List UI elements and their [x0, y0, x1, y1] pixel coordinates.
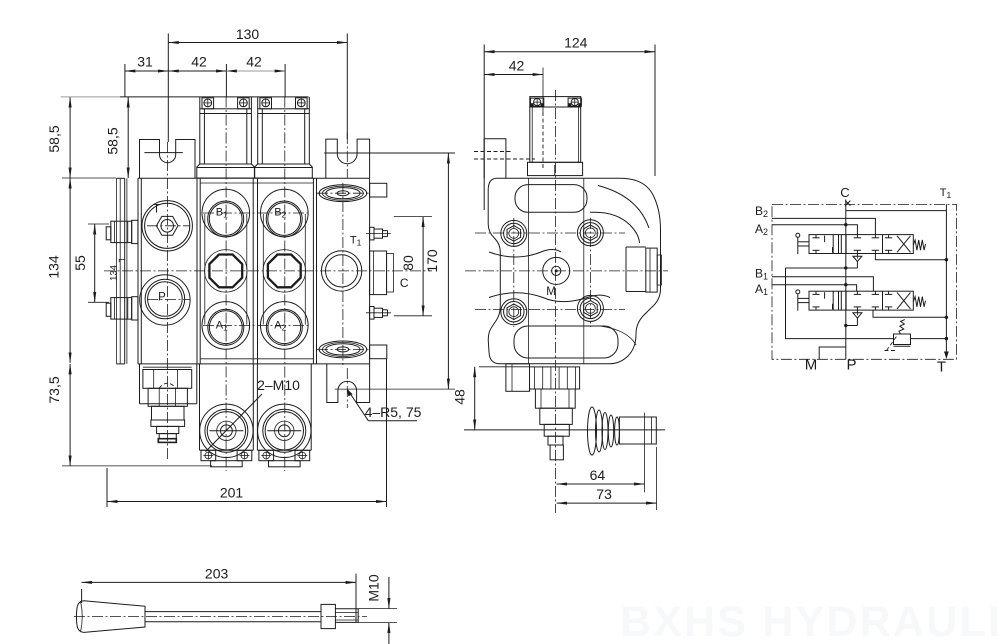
wire V1 tank return [873, 310, 946, 317]
side center port M [543, 257, 570, 284]
centerline foot axis [346, 368, 348, 408]
body top line [120, 96, 309, 98]
side body outline [488, 178, 660, 363]
left bolt lower [111, 298, 132, 320]
svg-text:124: 124 [564, 35, 588, 51]
port C circle [321, 251, 361, 291]
wire M stub [819, 347, 846, 359]
X mark at C [845, 201, 850, 206]
svg-text:130: 130 [236, 26, 260, 42]
side left protrusion clevis [484, 139, 506, 179]
centerline T row [147, 225, 190, 227]
svg-text:C: C [840, 185, 849, 200]
side decorative web lines [489, 250, 561, 258]
centerline inlet axis [167, 142, 169, 459]
svg-text:58,5: 58,5 [105, 127, 121, 154]
svg-text:2–M10: 2–M10 [257, 377, 300, 393]
check valve under V2 [856, 254, 858, 257]
centerline P row [147, 299, 190, 301]
svg-text:BXHS HYDRAULIC: BXHS HYDRAULIC [620, 598, 1000, 644]
side top lobe [515, 185, 587, 213]
right side plate [370, 251, 387, 295]
pin centerline / 170 extension [324, 152, 455, 154]
lever rod [145, 611, 321, 613]
side bottom lobe [514, 326, 618, 358]
side bottom stem stack [530, 367, 580, 389]
left side plate [116, 178, 118, 364]
section divider 3 [312, 178, 314, 364]
schematic border [772, 204, 957, 359]
side horizontal centerline [464, 429, 665, 431]
svg-text:31: 31 [137, 54, 153, 70]
section boss verticals 1 [204, 214, 206, 325]
port B1 [202, 189, 250, 237]
svg-text:58,5: 58,5 [46, 125, 62, 152]
port T [142, 201, 192, 251]
svg-text:134: 134 [109, 265, 120, 281]
svg-text:M: M [805, 357, 818, 374]
side bolts 4x [501, 220, 527, 246]
side left foot below body [506, 364, 530, 392]
port B2 [261, 189, 309, 237]
port A2 [261, 302, 309, 350]
line T1 vertical [945, 204, 947, 352]
svg-text:73,5: 73,5 [46, 376, 62, 403]
line C vertical [845, 200, 847, 360]
valve V2 upper directional valve [796, 233, 926, 254]
wire A1 [772, 285, 857, 292]
side actuator cap [530, 97, 581, 107]
centerline section1 axis [225, 97, 227, 472]
svg-text:42: 42 [246, 54, 262, 70]
wire check outlet to P [846, 325, 858, 327]
side right port plate [625, 247, 627, 292]
svg-text:80: 80 [400, 255, 416, 271]
wire B2 [772, 218, 875, 234]
section divider 1 [196, 178, 198, 364]
centerline ovals [317, 192, 369, 194]
centerline section2 axis [284, 97, 286, 472]
side end cylinder [619, 417, 656, 444]
svg-text:73: 73 [596, 486, 612, 502]
wire C to T1 top [846, 210, 947, 212]
centerline outlet axis [342, 183, 344, 365]
svg-text:T: T [937, 359, 946, 376]
svg-text:201: 201 [220, 485, 244, 501]
lever centerline [74, 616, 367, 618]
T1 bottom arrow [944, 352, 949, 360]
side vertical axis [555, 90, 557, 513]
svg-text:M10: M10 [366, 574, 382, 601]
svg-text:64: 64 [590, 467, 606, 483]
side section face verticals [527, 178, 529, 363]
bottom cap at 226.4 [199, 364, 201, 450]
center spool port section 1 [209, 255, 242, 288]
svg-text:4–R5, 75: 4–R5, 75 [365, 404, 422, 420]
bottom cap at 284.3 [256, 364, 258, 450]
wire relief to T1 [911, 338, 947, 340]
section boss verticals 2 [262, 214, 264, 325]
valve V1 lower directional valve [796, 290, 926, 311]
outlet oval slot top [319, 185, 367, 202]
wire P gallery to relief [786, 268, 894, 339]
right step bottom [370, 345, 387, 359]
centerline A row [203, 324, 308, 326]
svg-text:203: 203 [205, 566, 229, 582]
svg-text:T: T [153, 204, 160, 216]
foot bracket with notch 4-R5,75 [327, 364, 370, 403]
svg-text:P: P [158, 292, 166, 304]
right bolt bottom [370, 307, 374, 320]
main body outline [138, 177, 370, 179]
port A1 [202, 302, 250, 350]
right step top [370, 183, 387, 197]
centerline B row [203, 212, 308, 214]
wire A2 [772, 225, 857, 235]
section top face line [200, 182, 313, 184]
svg-text:P: P [846, 357, 856, 374]
svg-text:55: 55 [72, 255, 88, 271]
section divider 2 [252, 178, 254, 364]
wire B1 [772, 277, 873, 292]
left bolt upper [111, 221, 132, 242]
svg-text:42: 42 [191, 54, 207, 70]
svg-text:48: 48 [452, 389, 468, 405]
clevis bracket left [140, 140, 196, 179]
lever thread end [335, 608, 358, 610]
wire V2 tank return [875, 254, 946, 260]
svg-text:42: 42 [509, 58, 525, 74]
clevis bracket right [326, 139, 370, 178]
check valve under V1 [856, 310, 858, 313]
side top right crescent [598, 186, 649, 229]
actuator cap section1 [200, 109, 252, 164]
centerline clevis right axis [346, 133, 348, 178]
relief drain dashed [887, 337, 897, 351]
lever handle grip [76, 601, 145, 633]
right bolt top [370, 227, 374, 240]
relief valve adjuster stack [139, 364, 141, 404]
port P [140, 275, 190, 325]
svg-text:M: M [546, 286, 556, 298]
side bolt centerlines [475, 232, 625, 234]
svg-text:134: 134 [46, 255, 62, 279]
center spool port section 2 [268, 255, 301, 288]
centerline main horizontal [104, 270, 432, 272]
svg-text:C: C [400, 276, 409, 290]
side boot bellows [588, 407, 597, 455]
outlet oval slot bottom [319, 341, 367, 358]
lever nut [321, 604, 335, 628]
svg-text:170: 170 [424, 249, 440, 273]
relief valve RV [894, 334, 911, 345]
wire check outlet to P gallery [786, 267, 858, 269]
